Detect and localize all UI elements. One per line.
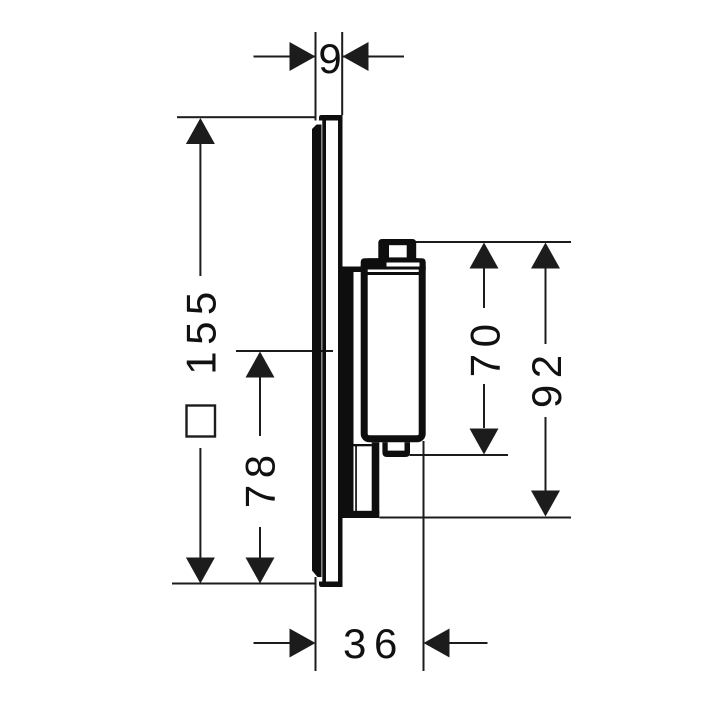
handle top white notch: [387, 263, 420, 267]
button cap on top: [378, 239, 416, 259]
svg-text:155: 155: [177, 285, 224, 375]
extension line E2 (right of 9, plate front): [341, 32, 343, 115]
extension line E8 (92 bottom): [380, 517, 572, 519]
handle sleeve body: [343, 267, 354, 512]
arrow 92 bottom: [531, 491, 560, 517]
arrow 78 bottom: [246, 558, 275, 584]
extension line E5 (155/78 bottom): [172, 583, 316, 585]
square symbol of label 155: [187, 406, 216, 437]
extension line E3 (155 top): [177, 116, 316, 118]
arrow 9 right: [343, 42, 369, 71]
valve block bottom bar: [343, 511, 380, 518]
dim line 36 left segment: [254, 642, 291, 644]
arrow 36 left: [290, 629, 316, 658]
valve block top line: [354, 444, 372, 446]
svg-text:70: 70: [461, 318, 508, 378]
dim line 9 left segment: [254, 56, 316, 58]
arrow 155 top: [186, 118, 215, 144]
plate top bar: [319, 115, 343, 121]
dim line 9 right segment: [343, 56, 404, 58]
svg-text:9: 9: [318, 35, 341, 82]
arrow 155 bottom: [186, 558, 215, 584]
extension line E4 (78 top, handle axis): [236, 350, 333, 352]
dim line 36 right segment: [450, 642, 488, 644]
plate inner back line: [322, 121, 326, 584]
handle inner top line: [367, 272, 419, 275]
dim line 78 lower segment: [259, 527, 261, 558]
arrow 92 top: [531, 243, 560, 269]
svg-text:78: 78: [237, 448, 284, 508]
handle top cap bar: [361, 258, 426, 269]
valve block left line: [355, 444, 357, 512]
handle neck below: [382, 442, 410, 457]
dim line 155 lower segment: [199, 448, 201, 558]
handle knob body: [364, 262, 422, 439]
extension line E9 (36 left): [315, 577, 317, 671]
extension line E10 (36 right): [423, 441, 425, 671]
dim line 92 upper segment: [545, 268, 547, 344]
extension line E1 (left of 9, wall face): [315, 32, 317, 121]
dim line 78 upper segment: [259, 377, 261, 436]
extension line E6 (70/92 top): [416, 241, 572, 243]
arrow 36 right: [424, 629, 450, 658]
dim line 70 lower segment: [483, 384, 485, 428]
svg-text:92: 92: [523, 348, 570, 408]
arrow 70 bottom: [470, 429, 499, 455]
extension line E7 (70 bottom): [410, 454, 509, 456]
button cap inner: [389, 245, 407, 257]
arrow 70 top: [470, 243, 499, 269]
arrow 9 left: [290, 42, 316, 71]
plate front face bar: [338, 115, 343, 587]
dim line 92 lower segment: [545, 417, 547, 491]
svg-text:36: 36: [343, 620, 405, 667]
handle sleeve top edge: [343, 267, 362, 273]
wall carrier bar (back plate): [312, 125, 322, 578]
dim line 70 upper segment: [483, 268, 485, 308]
arrow 78 top: [246, 352, 275, 378]
valve block right bar: [372, 442, 380, 518]
dim line 155 upper segment: [199, 143, 201, 276]
plate bottom bar: [319, 582, 343, 588]
